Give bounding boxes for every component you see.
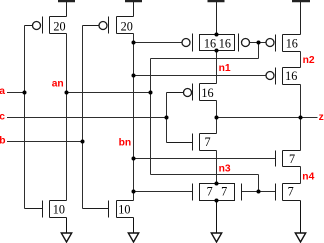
- nmos M8 width 7 (middle, gate c): [167, 134, 217, 151]
- svg-text:7: 7: [221, 185, 227, 199]
- svg-text:c: c: [0, 112, 5, 123]
- wire net an to nmos pair right gate: [242, 191, 276, 193]
- nmos pair M9 M10 width 7 7 (parallel pull-down, gates bn / an): [193, 184, 242, 201]
- wire net bn to pmos pair left gate: [134, 42, 183, 44]
- wire net a vertical riser: [24, 26, 26, 209]
- svg-text:7: 7: [288, 185, 294, 199]
- svg-text:7: 7: [204, 135, 210, 149]
- wire net c vertical riser: [166, 93, 168, 143]
- wire net an pmos gate row segment: [250, 42, 267, 44]
- wire net z middle vertical: [216, 101, 218, 134]
- wire input a: [7, 92, 25, 94]
- svg-text:16: 16: [286, 37, 298, 51]
- wire net an vertical (inverter 1 output): [66, 34, 68, 201]
- wire net an drop to pmos gate row: [258, 43, 260, 59]
- wire output z horizontal: [217, 117, 318, 119]
- power vdd symbol 4: [292, 1, 310, 34]
- wire net bn row to right pmos gate: [134, 75, 267, 77]
- pmos M5 width 16 (top right, gate an): [266, 35, 301, 52]
- wire net n2 vertical: [300, 52, 302, 68]
- wire net n1 vertical: [216, 51, 218, 84]
- wire net bn row to right nmos gate: [134, 158, 276, 160]
- ground symbol 1: [61, 218, 71, 243]
- svg-text:16: 16: [201, 86, 213, 100]
- wire net b vertical riser: [82, 26, 84, 209]
- svg-text:20: 20: [121, 20, 133, 34]
- svg-text:n4: n4: [302, 171, 314, 182]
- pmos M2 width 20 (inverter 2 pull-up): [83, 17, 134, 34]
- power vdd symbol 2: [125, 1, 142, 16]
- svg-text:z: z: [319, 112, 324, 123]
- wire net an horizontal: [67, 92, 151, 94]
- svg-text:10: 10: [53, 202, 65, 216]
- svg-text:n1: n1: [219, 63, 231, 74]
- wire net an lower horizontal: [151, 174, 259, 176]
- wire input c: [7, 117, 167, 119]
- nmos M11 width 7 (right upper, gate bn): [276, 151, 301, 167]
- pmos M7 width 16 (right middle, gate bn): [266, 68, 301, 85]
- svg-text:20: 20: [53, 20, 65, 34]
- svg-text:n3: n3: [219, 163, 231, 174]
- nmos M12 width 7 (right lower, gate an): [276, 184, 301, 201]
- svg-text:7: 7: [207, 185, 213, 199]
- svg-text:bn: bn: [119, 138, 132, 149]
- pmos M1 width 20 (inverter 1 pull-up): [25, 17, 67, 34]
- wire net an drop to nmos gate row: [258, 175, 260, 192]
- svg-text:10: 10: [118, 202, 130, 216]
- svg-text:an: an: [52, 78, 64, 89]
- pmos M6 width 16 (middle, gate c): [167, 84, 217, 101]
- svg-text:7: 7: [289, 152, 295, 166]
- svg-text:16: 16: [219, 37, 231, 51]
- ground symbol 2: [128, 218, 138, 243]
- svg-text:16: 16: [285, 69, 297, 83]
- svg-text:16: 16: [204, 37, 216, 51]
- wire net an long vertical: [150, 59, 152, 175]
- nmos M13 width 10 (inverter 1 pull-down): [25, 201, 67, 218]
- wire input b: [7, 141, 83, 143]
- wire net n3 vertical: [216, 151, 218, 184]
- power vdd symbol 3: [208, 1, 225, 34]
- svg-text:a: a: [0, 86, 5, 97]
- wire net bn vertical (inverter 2 output): [133, 34, 135, 201]
- pmos pair M3 M4 width 16 16 (parallel pull-up, gates bn / an): [182, 34, 250, 52]
- wire net n4 vertical: [300, 167, 302, 184]
- wire net z right vertical: [300, 85, 302, 151]
- wire net bn to nmos pair left gate: [134, 191, 193, 193]
- svg-text:n2: n2: [303, 55, 315, 66]
- svg-text:b: b: [0, 136, 5, 147]
- ground symbol 4: [295, 201, 305, 243]
- wire net an upper horizontal: [151, 58, 259, 60]
- ground symbol 3: [211, 201, 221, 243]
- power vdd symbol 1: [58, 1, 75, 16]
- nmos M14 width 10 (inverter 2 pull-down): [83, 201, 134, 218]
